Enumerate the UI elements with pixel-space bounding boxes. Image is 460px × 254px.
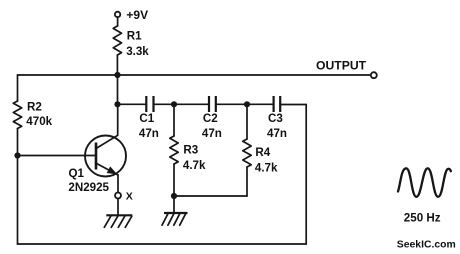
wire node C to C1 bbox=[118, 103, 147, 105]
svg-text:X: X bbox=[126, 191, 133, 203]
svg-text:R4: R4 bbox=[255, 146, 270, 159]
wire right rail bbox=[305, 105, 307, 245]
wire bottom rail bbox=[18, 243, 307, 245]
wire node E to C3 bbox=[247, 103, 274, 105]
svg-text:+9V: +9V bbox=[126, 8, 148, 22]
wire collector to node C bbox=[117, 104, 119, 135]
resistor R1 bbox=[113, 26, 121, 55]
+9V terminal bbox=[115, 12, 120, 17]
svg-text:4.7k: 4.7k bbox=[183, 159, 206, 172]
svg-text:2N2925: 2N2925 bbox=[68, 181, 109, 194]
ground G1 bbox=[104, 215, 132, 227]
wire top rail to OUTPUT bbox=[18, 74, 371, 76]
wire 9V lead bbox=[117, 17, 119, 26]
svg-text:4.7k: 4.7k bbox=[255, 162, 278, 175]
wire emitter lead bbox=[117, 175, 119, 192]
node B base junction dot bbox=[14, 152, 20, 158]
node D junction dot bbox=[171, 101, 177, 107]
node E junction dot bbox=[244, 101, 250, 107]
svg-text:47n: 47n bbox=[139, 127, 159, 140]
wire left rail upper bbox=[17, 75, 19, 101]
resistor R2 bbox=[13, 101, 21, 129]
ground G2 bbox=[162, 213, 188, 225]
sine wave symbol bbox=[398, 168, 451, 197]
svg-text:47n: 47n bbox=[267, 127, 287, 140]
wire node D to C2 bbox=[174, 103, 209, 105]
wire C1 to node D bbox=[154, 103, 175, 105]
transistor Q1 circle bbox=[85, 136, 126, 177]
svg-text:R2: R2 bbox=[27, 100, 42, 113]
OUTPUT terminal bbox=[371, 72, 377, 78]
node A junction dot bbox=[114, 72, 120, 78]
resistor R4 bbox=[243, 104, 251, 196]
node F junction dot bbox=[171, 193, 177, 199]
svg-text:47n: 47n bbox=[202, 127, 222, 140]
svg-text:250 Hz: 250 Hz bbox=[404, 211, 441, 224]
svg-text:3.3k: 3.3k bbox=[126, 45, 149, 58]
capacitor C2 bbox=[209, 96, 216, 112]
svg-text:R3: R3 bbox=[183, 143, 198, 156]
wire base bbox=[18, 155, 97, 157]
Q1 emitter stroke with arrow bbox=[96, 163, 119, 175]
wire node F to R4 bottom bbox=[174, 195, 247, 197]
wire C3 to right rail bbox=[280, 104, 306, 106]
resistor R3 bbox=[170, 104, 178, 196]
svg-text:SeekIC.com: SeekIC.com bbox=[397, 240, 456, 251]
Q1 collector stroke bbox=[96, 135, 118, 148]
capacitor C3 bbox=[274, 96, 281, 112]
svg-text:C1: C1 bbox=[139, 112, 154, 125]
wire left rail lower bbox=[17, 129, 19, 245]
wire node A to node C bbox=[117, 75, 119, 104]
svg-text:C3: C3 bbox=[268, 112, 283, 125]
svg-text:R1: R1 bbox=[127, 30, 142, 43]
svg-text:C2: C2 bbox=[203, 112, 218, 125]
wire R1 to node A bbox=[116, 55, 118, 75]
wire node F to ground bbox=[173, 196, 175, 213]
Q1 base bar bbox=[95, 143, 98, 170]
svg-text:470k: 470k bbox=[26, 115, 52, 128]
wire X to ground bbox=[117, 199, 119, 215]
svg-text:Q1: Q1 bbox=[69, 167, 85, 180]
capacitor C1 bbox=[146, 96, 153, 112]
node C junction dot bbox=[114, 101, 120, 107]
terminal X bbox=[115, 193, 121, 199]
wire C2 to node E bbox=[216, 103, 247, 105]
svg-text:OUTPUT: OUTPUT bbox=[316, 58, 367, 72]
